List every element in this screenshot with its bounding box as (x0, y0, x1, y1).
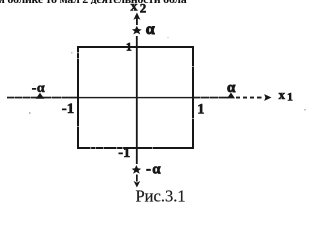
square region |x1|<=1, |x2|<=1 (78, 47, 193, 148)
svg-text:1: 1 (126, 42, 132, 54)
point marker alpha on +x2 axis (star) (132, 26, 142, 35)
faint scan specks (29, 37, 306, 114)
scan texture: small light notches on lines (14, 52, 219, 149)
svg-text:1: 1 (197, 101, 204, 117)
wire: vertical axis lower stub (136, 175, 138, 182)
svg-text:x: x (279, 87, 286, 102)
label x1 (279, 87, 294, 104)
arrow up (x2 axis head) (133, 13, 140, 26)
svg-text:2: 2 (140, 1, 147, 16)
label x2 (131, 0, 147, 16)
svg-text:1: 1 (287, 90, 293, 104)
point marker -alpha on x1 axis (triangle) (36, 93, 45, 99)
wire: horizontal axis right of square (193, 97, 228, 99)
svg-text:α: α (146, 21, 155, 38)
wire: vertical axis main segment (136, 36, 138, 164)
svg-text:-α: -α (146, 162, 161, 178)
wire: horizontal axis left segment (7, 97, 78, 99)
svg-text:x: x (131, 0, 138, 14)
point marker -alpha on x2 axis (star) (132, 165, 141, 174)
svg-text:-1: -1 (118, 145, 130, 161)
svg-text:-α: -α (32, 81, 45, 96)
point marker alpha on +x1 axis (triangle) (227, 93, 235, 99)
arrow right (x1 axis head) (264, 94, 271, 101)
arrow down (bottom of x2 axis) (134, 181, 141, 188)
svg-text:Рис.3.1: Рис.3.1 (136, 187, 186, 206)
wire: horizontal axis through square (78, 97, 193, 98)
svg-text:α: α (227, 80, 236, 96)
wire: dashed segment toward arrow (236, 97, 262, 99)
svg-text:-1: -1 (62, 101, 75, 117)
